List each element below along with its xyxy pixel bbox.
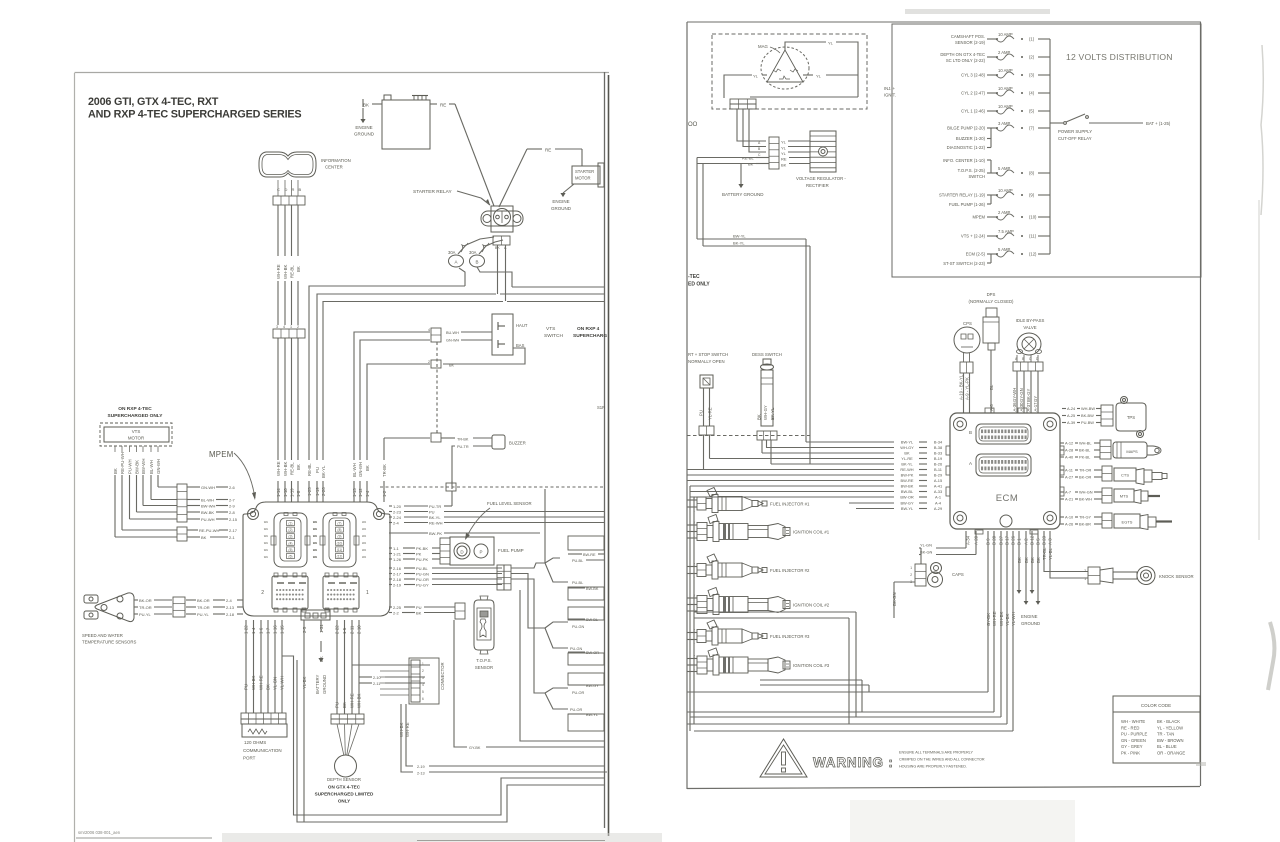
svg-text:IGNITION COIL #2: IGNITION COIL #2 — [793, 603, 830, 608]
DPS sensor — [983, 308, 999, 350]
ECM wire rows from left — [687, 440, 943, 512]
svg-text:YL: YL — [781, 140, 787, 145]
main harness bus lines — [309, 245, 604, 460]
svg-text:BK: BK — [757, 414, 762, 420]
svg-text:WH-BL: WH-BL — [1079, 441, 1092, 446]
svg-text:YL - YELLOW: YL - YELLOW — [1157, 725, 1183, 730]
svg-text:1-21: 1-21 — [393, 551, 402, 556]
svg-text:WH-RE: WH-RE — [259, 675, 264, 690]
fuel injector #3 — [687, 620, 810, 645]
svg-text:WA: WA — [313, 527, 317, 531]
svg-text:RE-BL: RE-BL — [290, 462, 295, 475]
svg-text:2006 GTI, GTX 4-TEC, RXT: 2006 GTI, GTX 4-TEC, RXT — [88, 96, 219, 108]
svg-text:BK: BK — [365, 465, 370, 471]
svg-text:YL: YL — [753, 74, 759, 79]
svg-text:A-26: A-26 — [1065, 522, 1073, 527]
svg-text:(6): (6) — [289, 555, 293, 559]
svg-text:GN - GREEN: GN - GREEN — [1121, 738, 1146, 743]
svg-text:BK: BK — [449, 364, 455, 368]
svg-text:2-17: 2-17 — [229, 528, 238, 533]
svg-text:YL: YL — [781, 151, 787, 156]
svg-text:NORMALLY OPEN: NORMALLY OPEN — [688, 359, 725, 364]
svg-text:WA: WA — [362, 527, 366, 531]
svg-text:BUZZER (1-20): BUZZER (1-20) — [956, 136, 986, 141]
svg-text:S1R: S1R — [597, 405, 605, 410]
svg-text:B: B — [969, 430, 972, 435]
wire RE starter relay to starter motor — [499, 148, 582, 208]
svg-text:A-39: A-39 — [1067, 420, 1075, 425]
fuse 9 10 AMP — [939, 188, 1050, 198]
svg-text:(9): (9) — [1029, 193, 1035, 198]
svg-text:2: 2 — [297, 325, 299, 329]
svg-text:WA: WA — [362, 541, 366, 545]
svg-text:BK: BK — [342, 702, 347, 708]
svg-text:MAPS: MAPS — [1126, 449, 1138, 454]
svg-text:WH-RE: WH-RE — [405, 722, 410, 737]
svg-text:PU-BL: PU-BL — [572, 581, 583, 585]
fuse B 30A — [469, 240, 503, 267]
svg-text:A-36: A-36 — [1012, 402, 1017, 412]
svg-text:HOUSING ARE PROPERLY FASTENED.: HOUSING ARE PROPERLY FASTENED. — [899, 765, 967, 769]
color code entries — [1121, 719, 1185, 756]
svg-text:1-8: 1-8 — [296, 490, 301, 497]
svg-text:GY-GN: GY-GN — [1019, 388, 1024, 402]
svg-text:A-41: A-41 — [934, 484, 942, 489]
buzzer — [492, 435, 526, 449]
accessory ladder connector fans — [452, 487, 568, 709]
svg-text:YL-RE: YL-RE — [901, 456, 913, 461]
svg-text:BK-OR: BK-OR — [197, 598, 210, 603]
svg-text:BK-YL: BK-YL — [321, 465, 326, 478]
svg-text:BK: BK — [266, 684, 271, 690]
svg-text:1-15: 1-15 — [280, 625, 285, 634]
svg-text:BW-YL: BW-YL — [733, 234, 746, 239]
svg-text:GROUND: GROUND — [354, 132, 375, 137]
starter relay label — [413, 189, 490, 205]
svg-text:AND RXP 4-TEC SUPERCHARGED SER: AND RXP 4-TEC SUPERCHARGED SERIES — [88, 109, 301, 121]
MAPS connector — [1100, 440, 1111, 459]
svg-text:PU-YL: PU-YL — [197, 612, 210, 617]
svg-text:FUEL LEVEL SENSOR: FUEL LEVEL SENSOR — [487, 501, 532, 506]
svg-text:1-26: 1-26 — [393, 557, 402, 562]
stop switch — [700, 375, 713, 388]
svg-text:2-10: 2-10 — [373, 676, 381, 680]
svg-text:VALVE: VALVE — [1023, 325, 1036, 330]
svg-text:PU: PU — [335, 702, 340, 708]
svg-text:(4): (4) — [1029, 91, 1035, 96]
svg-text:ED ONLY: ED ONLY — [688, 282, 710, 288]
svg-text:RE - RED: RE - RED — [1121, 725, 1139, 730]
svg-text:A-15: A-15 — [934, 478, 942, 483]
svg-text:B-26: B-26 — [934, 462, 942, 467]
svg-text:BK: BK — [904, 451, 910, 456]
svg-text:COLOR CODE: COLOR CODE — [1141, 703, 1171, 708]
svg-text:FUEL INJECTOR #3: FUEL INJECTOR #3 — [770, 634, 810, 639]
communication port connector — [241, 713, 286, 724]
information center wires down to MPEM — [276, 180, 301, 502]
bold note 4-TEC ED ONLY (cut) — [688, 274, 710, 288]
svg-text:WA: WA — [362, 520, 366, 524]
VTS motor wire labels — [187, 485, 238, 522]
svg-text:WA: WA — [264, 534, 268, 538]
svg-text:WH-BK: WH-BK — [251, 676, 256, 690]
svg-text:ENGINE: ENGINE — [355, 125, 372, 130]
warning word — [813, 755, 894, 770]
VTS switch connector — [431, 328, 441, 342]
power supply cut-off relay — [1050, 114, 1171, 141]
svg-text:SWITCH: SWITCH — [544, 333, 563, 339]
svg-text:PK: PK — [416, 551, 422, 556]
svg-text:WH - WHITE: WH - WHITE — [1121, 719, 1145, 724]
svg-text:(7): (7) — [338, 522, 342, 526]
svg-text:C: C — [277, 187, 280, 192]
svg-text:DEPTH ON GTX 4-TEC: DEPTH ON GTX 4-TEC — [940, 52, 985, 57]
svg-text:2-4: 2-4 — [226, 598, 233, 603]
svg-text:5: 5 — [422, 690, 424, 694]
depth sensor option wires right — [352, 665, 430, 686]
EGTS sensor — [1114, 514, 1172, 530]
svg-text:CTS: CTS — [1121, 473, 1129, 478]
ignition coil #3 — [687, 648, 830, 675]
svg-text:2: 2 — [1084, 569, 1086, 573]
svg-text:WA: WA — [313, 555, 317, 559]
svg-text:BW-BK: BW-BK — [201, 510, 214, 515]
MAPS wires — [1060, 441, 1100, 460]
CTS connector — [1102, 466, 1112, 481]
svg-text:IGNITION COIL #3: IGNITION COIL #3 — [793, 663, 830, 668]
left page border frame — [75, 72, 610, 842]
svg-text:ST-ST SWITCH (2-23): ST-ST SWITCH (2-23) — [943, 261, 985, 266]
svg-text:2-9: 2-9 — [229, 503, 236, 508]
dashed lanyard line — [687, 435, 810, 437]
svg-text:GROUND: GROUND — [551, 206, 572, 211]
svg-text:2-16: 2-16 — [393, 566, 402, 571]
svg-text:BK: BK — [296, 464, 301, 470]
depth sensor connector — [331, 714, 364, 724]
svg-text:1-4: 1-4 — [251, 627, 256, 634]
communication port wires — [244, 620, 285, 713]
ECM bottom pin labels — [966, 535, 1053, 545]
svg-text:WH-BK: WH-BK — [999, 612, 1004, 626]
svg-text:A-19 - BK-YL: A-19 - BK-YL — [959, 374, 964, 400]
svg-text:WA: WA — [264, 520, 268, 524]
svg-text:YL: YL — [781, 146, 787, 151]
VTS BK inline connector — [431, 360, 441, 368]
svg-text:CAPS: CAPS — [952, 572, 964, 577]
svg-text:(NORMALLY CLOSED): (NORMALLY CLOSED) — [969, 299, 1015, 304]
svg-text:BW-RE: BW-RE — [901, 478, 914, 483]
svg-text:(2): (2) — [1029, 55, 1035, 60]
depth sensor — [335, 724, 360, 777]
svg-text:(5): (5) — [1029, 109, 1035, 114]
DPS label — [969, 292, 1015, 304]
svg-text:A-29: A-29 — [934, 506, 942, 511]
magneto YL wires — [724, 41, 858, 99]
ladder boxes — [568, 536, 604, 731]
page footer text smr2006 — [76, 830, 212, 838]
svg-text:A-30: A-30 — [1019, 402, 1024, 412]
CTS sensor — [1114, 468, 1167, 485]
svg-text:YL-WH: YL-WH — [280, 676, 285, 690]
VTS switch label — [544, 326, 563, 339]
svg-text:BK-GY: BK-GY — [1026, 388, 1031, 402]
svg-text:RE-PU-WH: RE-PU-WH — [120, 452, 125, 474]
svg-text:BK-BL: BK-BL — [1079, 448, 1091, 453]
fuel pump bracket — [949, 195, 991, 207]
svg-text:B-29: B-29 — [934, 473, 942, 478]
fuse A 30A — [448, 237, 494, 267]
CAPS sensor — [910, 563, 964, 588]
CPS connector — [960, 353, 973, 373]
svg-text:(11): (11) — [1029, 234, 1037, 239]
svg-text:ECM: ECM — [996, 493, 1019, 504]
svg-text:WH-BK: WH-BK — [283, 462, 288, 476]
harness routing loops right of coils — [694, 612, 894, 724]
fuel level sensor wires from MPEM — [389, 452, 604, 536]
fuel level sensor label — [465, 501, 532, 540]
svg-text:BW-OR: BW-OR — [900, 495, 914, 500]
svg-text:BK: BK — [1036, 557, 1041, 563]
svg-text:BL-WH: BL-WH — [149, 460, 154, 474]
svg-text:PU-OR: PU-OR — [416, 577, 429, 582]
svg-text:BK-OR: BK-OR — [139, 598, 152, 603]
ECM connector B — [969, 424, 1031, 444]
regulator connector column — [758, 137, 779, 169]
svg-text:ONLY: ONLY — [338, 799, 350, 804]
svg-text:WA: WA — [362, 555, 366, 559]
st-st switch bracket — [943, 254, 991, 266]
svg-text:VTS + (2-24): VTS + (2-24) — [961, 234, 986, 239]
svg-text:CENTER: CENTER — [325, 165, 343, 170]
svg-text:(10): (10) — [337, 541, 343, 545]
svg-text:BK-GN: BK-GN — [892, 592, 897, 606]
dashed harness wire to page edge — [380, 481, 604, 487]
fuse 12 5 AMP — [966, 247, 1050, 257]
injector harness verticals on border — [690, 486, 694, 731]
svg-text:MPEM: MPEM — [972, 215, 985, 220]
svg-text:GN-WH: GN-WH — [156, 459, 161, 474]
svg-text:1: 1 — [290, 325, 292, 329]
svg-text:BK - BLACK: BK - BLACK — [1157, 719, 1180, 724]
svg-text:PU-GN: PU-GN — [570, 647, 582, 651]
svg-text:B-33: B-33 — [934, 451, 942, 456]
svg-text:WH-GY: WH-GY — [900, 445, 914, 450]
svg-text:A-9 - YL-PK: A-9 - YL-PK — [965, 377, 970, 400]
svg-text:BK: BK — [296, 266, 301, 272]
svg-text:2-15: 2-15 — [229, 517, 238, 522]
svg-text:(1): (1) — [1029, 37, 1035, 42]
svg-text:-TEC: -TEC — [688, 274, 700, 280]
wire RE battery to starter relay — [430, 103, 494, 207]
svg-text:2-18: 2-18 — [393, 577, 402, 582]
warning triangle — [760, 739, 807, 777]
svg-text:YL-GN: YL-GN — [920, 543, 932, 548]
svg-text:2: 2 — [422, 669, 424, 673]
svg-text:STARTER: STARTER — [575, 169, 594, 174]
magneto stator winding triangle — [758, 44, 809, 89]
fuse panel bus bar — [1049, 39, 1051, 254]
svg-text:1-22: 1-22 — [244, 625, 249, 634]
svg-text:BILGE PUMP (2-20): BILGE PUMP (2-20) — [947, 126, 985, 131]
svg-text:CPS: CPS — [963, 321, 972, 326]
bold note ON RXP 4-TEC SUPERCHARGED ONLY — [108, 406, 164, 419]
svg-text:VTS: VTS — [132, 429, 141, 434]
DESS switch connector — [757, 431, 777, 440]
svg-text:3: 3 — [276, 325, 278, 329]
svg-text:TR-GY: TR-GY — [1079, 515, 1092, 520]
engine ground (starter motor) — [551, 184, 574, 211]
stop switch wires — [699, 388, 713, 426]
inline connector on dashed wire — [446, 483, 456, 491]
svg-text:PU-GN: PU-GN — [572, 625, 584, 629]
svg-text:PORT: PORT — [243, 756, 256, 761]
communication port 120 ohms resistor — [242, 724, 287, 737]
svg-text:A-24: A-24 — [1067, 406, 1076, 411]
svg-text:A-4: A-4 — [935, 501, 942, 506]
wire YL-BK 2-5 down page — [302, 620, 307, 822]
VTS motor wires — [113, 446, 177, 537]
battery ground wire from MPEM — [315, 620, 327, 694]
speed/water temp sensors label — [82, 633, 136, 645]
svg-text:BK-WH: BK-WH — [1079, 497, 1092, 502]
svg-text:6: 6 — [422, 697, 424, 701]
svg-text:YL: YL — [828, 41, 834, 46]
svg-text:PU: PU — [315, 467, 320, 473]
regulator wire labels — [697, 140, 810, 168]
svg-text:RE: RE — [545, 148, 551, 153]
svg-text:A-12: A-12 — [1065, 441, 1073, 446]
engine ground label (battery) — [354, 125, 375, 137]
svg-text:BATTERY: BATTERY — [315, 674, 320, 694]
VTS motor connector A-F — [177, 484, 187, 522]
svg-text:IGNIT.: IGNIT. — [884, 93, 896, 98]
svg-text:(7): (7) — [1029, 126, 1035, 131]
svg-text:2-13: 2-13 — [417, 772, 425, 776]
svg-text:4: 4 — [422, 683, 424, 687]
svg-text:2-5: 2-5 — [302, 626, 307, 633]
right page border frame — [687, 22, 1201, 789]
svg-text:GN-WH: GN-WH — [201, 485, 215, 490]
svg-text:2-19: 2-19 — [417, 765, 425, 769]
svg-text:CYL 2 (2-47): CYL 2 (2-47) — [961, 91, 985, 96]
svg-text:1-14: 1-14 — [276, 488, 281, 497]
svg-text:TR-BK: TR-BK — [457, 438, 469, 442]
svg-text:HAUT: HAUT — [516, 323, 528, 328]
svg-text:FUEL INJECTOR #1: FUEL INJECTOR #1 — [770, 502, 810, 507]
svg-text:PU-BL: PU-BL — [416, 566, 429, 571]
knock sensor connector — [1084, 567, 1100, 584]
wires BU-WH GN-WH to VTS switch — [354, 328, 492, 460]
svg-text:2-24: 2-24 — [393, 515, 402, 520]
svg-text:FUEL PUMP: FUEL PUMP — [498, 548, 524, 553]
svg-text:INFO. CENTER (1-10): INFO. CENTER (1-10) — [943, 158, 985, 163]
svg-text:WH-GY: WH-GY — [763, 405, 768, 420]
svg-text:1-31: 1-31 — [319, 624, 324, 633]
svg-text:2-23: 2-23 — [393, 509, 402, 514]
svg-text:KNOCK SENSOR: KNOCK SENSOR — [1159, 574, 1194, 579]
speed/water sensor connector — [173, 597, 185, 617]
svg-text:GN-WH: GN-WH — [358, 462, 363, 477]
svg-text:TR-OR: TR-OR — [139, 605, 152, 610]
svg-text:BL: BL — [989, 384, 994, 390]
svg-text:TEMPERATURE SENSORS: TEMPERATURE SENSORS — [82, 640, 136, 645]
VTS motor connector 2 — [177, 527, 187, 541]
svg-text:1-6: 1-6 — [259, 627, 264, 634]
svg-text:1-7: 1-7 — [266, 627, 271, 634]
svg-text:BK: BK — [113, 468, 118, 474]
svg-text:WA: WA — [313, 520, 317, 524]
svg-text:CYL 3 (2-48): CYL 3 (2-48) — [961, 73, 985, 78]
speed/water sensor wires — [134, 598, 243, 617]
svg-text:BW-WH: BW-WH — [201, 503, 215, 508]
svg-text:2-7: 2-7 — [229, 497, 236, 502]
TPS wires — [1062, 406, 1101, 425]
information center pin letters C D R B — [277, 187, 302, 192]
svg-text:B-38: B-38 — [934, 445, 942, 450]
svg-text:B-11: B-11 — [934, 467, 942, 472]
svg-text:(5): (5) — [289, 548, 293, 552]
T.O.P.S. sensor label — [475, 658, 493, 670]
svg-text:STARTER RELAY: STARTER RELAY — [413, 189, 452, 195]
svg-text:YL-BL: YL-BL — [1048, 547, 1053, 560]
fuse 8 5 AMP — [958, 166, 1050, 179]
svg-text:PU: PU — [429, 509, 435, 514]
EGTS connector — [1102, 513, 1112, 528]
svg-text:DEPTH SENSOR: DEPTH SENSOR — [327, 777, 361, 782]
svg-text:BK-BR: BK-BR — [1079, 522, 1091, 527]
svg-text:WARNING :: WARNING : — [813, 755, 894, 770]
EGTS wires — [1060, 515, 1102, 527]
svg-text:A-27: A-27 — [1065, 475, 1073, 480]
bold note ON RXP 4 SUPERCHARGED — [573, 326, 607, 339]
wires below connector block — [399, 704, 607, 776]
svg-text:4: 4 — [283, 325, 285, 329]
svg-text:2-13: 2-13 — [226, 605, 235, 610]
fuel injector #2 — [687, 554, 810, 579]
svg-text:RE-WH: RE-WH — [900, 467, 913, 472]
svg-text:GY-BK: GY-BK — [986, 613, 991, 626]
svg-text:T.O.P.S. (2-25): T.O.P.S. (2-25) — [958, 168, 986, 173]
svg-text:BK-BW: BK-BW — [1081, 413, 1094, 418]
engine ground label below ECM — [1021, 614, 1040, 626]
svg-text:T.O.P.S.: T.O.P.S. — [476, 658, 491, 663]
wire PU to bottom right — [520, 590, 604, 741]
svg-text:ON RXP 4-TEC: ON RXP 4-TEC — [118, 406, 152, 412]
svg-text:2-11: 2-11 — [350, 625, 355, 634]
svg-text:120 OHMS: 120 OHMS — [244, 740, 266, 745]
second bottom route wire — [297, 660, 604, 822]
fuse 2 2 AMP — [940, 50, 1050, 63]
accessory connector — [497, 565, 511, 590]
svg-text:DIAGNOSTIC (1-22): DIAGNOSTIC (1-22) — [947, 145, 986, 150]
svg-text:(12): (12) — [1029, 252, 1037, 257]
fuel injector #1 — [687, 488, 810, 513]
svg-text:1-20: 1-20 — [393, 504, 402, 509]
buzzer diagnostic bracket — [947, 128, 991, 150]
svg-text:2: 2 — [910, 573, 912, 577]
svg-text:(10): (10) — [1029, 215, 1037, 220]
svg-text:RE-BL: RE-BL — [290, 265, 295, 278]
wires RE-BL BK to left edge — [697, 158, 741, 247]
svg-text:RE-PU-WH: RE-PU-WH — [199, 528, 220, 533]
svg-text:1: 1 — [1084, 577, 1086, 581]
svg-text:ON RXP 4: ON RXP 4 — [577, 326, 600, 332]
svg-text:CAMSHAFT POS.: CAMSHAFT POS. — [951, 34, 985, 39]
MTS sensor — [1114, 489, 1160, 504]
wire GY-BK — [454, 620, 604, 750]
svg-text:INJ. +: INJ. + — [884, 86, 896, 91]
svg-text:PU-GN: PU-GN — [416, 571, 429, 576]
